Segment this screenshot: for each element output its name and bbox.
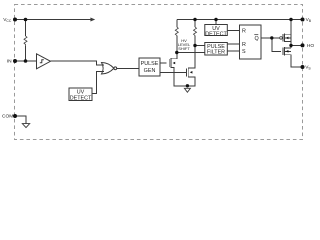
svg-text:VB: VB (306, 17, 312, 23)
svg-text:SHIFT: SHIFT (178, 46, 190, 51)
svg-text:IN: IN (7, 59, 12, 65)
svg-text:R: R (242, 42, 246, 48)
svg-text:Q: Q (255, 36, 259, 42)
svg-text:PULSE: PULSE (141, 61, 159, 67)
svg-text:FILTER: FILTER (207, 50, 225, 56)
svg-text:R: R (242, 28, 246, 34)
svg-text:S: S (242, 49, 246, 55)
svg-text:VCC: VCC (3, 17, 12, 23)
svg-text:GEN: GEN (144, 68, 156, 74)
svg-text:COM: COM (2, 114, 13, 120)
svg-text:VS: VS (305, 65, 311, 71)
svg-text:DETECT: DETECT (205, 31, 227, 37)
svg-text:DETECT: DETECT (70, 96, 92, 102)
svg-text:HO: HO (307, 43, 314, 49)
